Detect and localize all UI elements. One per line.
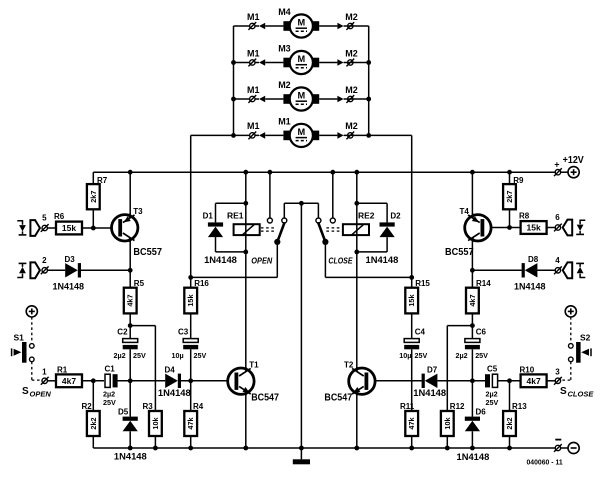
wire +12V rail	[93, 171, 555, 173]
wire D8 to pin 4	[537, 269, 555, 271]
wire R15 to C4	[411, 313, 413, 338]
wire C5 to R10	[498, 380, 521, 382]
wire R3 to ground rail	[154, 436, 156, 448]
wire motor row M1 right	[344, 134, 369, 136]
wire motor-left drop to switch common node	[191, 134, 234, 136]
wire S1 dashed top	[31, 317, 33, 344]
svg-text:D7: D7	[427, 365, 438, 374]
svg-text:2k2: 2k2	[505, 417, 514, 429]
svg-text:D4: D4	[165, 365, 176, 374]
resistor R15	[411, 277, 413, 287]
svg-text:CLOSE: CLOSE	[568, 390, 595, 399]
svg-text:R2: R2	[82, 402, 93, 411]
svg-text:2µ2: 2µ2	[456, 351, 468, 360]
diode D6	[471, 381, 473, 417]
wire T2 emitter to ground rail	[356, 394, 358, 448]
wire T4 collector node to D8	[472, 269, 521, 271]
svg-text:R11: R11	[400, 402, 415, 411]
svg-text:S: S	[560, 386, 567, 397]
svg-text:OPEN: OPEN	[30, 390, 52, 399]
wire D3 to T3 collector node	[81, 269, 130, 271]
svg-text:1N4148: 1N4148	[366, 255, 399, 266]
svg-text:R6: R6	[54, 212, 65, 221]
svg-text:T3: T3	[133, 207, 143, 216]
svg-text:BC547: BC547	[251, 392, 279, 403]
capacitor C2	[123, 339, 138, 343]
wire C1 to node	[117, 380, 165, 382]
svg-text:5: 5	[42, 214, 47, 223]
wire jog to R12	[447, 325, 472, 327]
wire D2 bottom link	[357, 251, 387, 253]
wire T3 base	[82, 227, 119, 229]
svg-text:M1: M1	[247, 85, 260, 95]
wire RE1 coil through box	[245, 224, 247, 252]
node T4 base / R9	[507, 225, 512, 230]
svg-text:RE2: RE2	[358, 210, 375, 220]
wire C3 to T1 base node	[190, 349, 192, 381]
wire R4 to ground rail	[190, 436, 192, 448]
wire M2-side bus	[368, 26, 370, 135]
svg-text:BC557: BC557	[133, 247, 162, 258]
resistor R16	[190, 277, 192, 287]
svg-text:040060 - 11: 040060 - 11	[527, 458, 563, 467]
svg-text:2µ2: 2µ2	[114, 351, 126, 360]
wire RE1 coil from rail	[245, 172, 247, 224]
wire motor row M4 right	[344, 25, 369, 27]
node T3 collector / D3 / R5	[128, 268, 133, 273]
wire R5 to C2 node	[129, 313, 131, 338]
wire D1 bottom link	[216, 251, 246, 253]
svg-text:25V: 25V	[415, 351, 428, 360]
svg-text:1N4148: 1N4148	[204, 255, 237, 266]
wire C4 to T2 base node	[411, 349, 413, 381]
wire center to ground rail	[300, 203, 302, 448]
wire R1 to node	[82, 380, 104, 382]
switch S2	[569, 344, 574, 349]
node R14 / C6 / R12 jog	[470, 323, 475, 328]
svg-text:R15: R15	[415, 279, 430, 288]
svg-text:M: M	[297, 91, 305, 101]
svg-text:25V: 25V	[133, 351, 146, 360]
svg-text:3: 3	[555, 368, 560, 377]
svg-text:T1: T1	[249, 360, 259, 369]
svg-text:R14: R14	[476, 279, 491, 288]
relay coil RE1	[234, 224, 260, 235]
pin 3	[555, 378, 560, 383]
capacitor C5	[485, 374, 490, 387]
svg-text:10µ: 10µ	[399, 351, 411, 360]
resistor R9	[503, 184, 516, 209]
diode D7	[425, 374, 438, 388]
svg-text:10k: 10k	[443, 416, 452, 429]
wire M1-side bus	[233, 26, 235, 135]
input contact symbol pin 2	[17, 274, 22, 278]
svg-text:+: +	[554, 160, 559, 170]
node RE2 coil bottom / D2	[354, 250, 359, 255]
wire RE2 coil bottom to T2 collector	[356, 252, 358, 370]
wire C2 to C1 node	[129, 349, 131, 381]
svg-text:BC547: BC547	[324, 392, 352, 403]
wire motor row M2 left	[234, 98, 260, 100]
wire R9 to T4 base node	[509, 209, 511, 227]
wire ground rail	[93, 447, 555, 449]
node D4 / C3 / R4	[188, 378, 193, 383]
svg-text:M: M	[297, 54, 305, 64]
svg-text:C3: C3	[178, 328, 189, 337]
transistor T2	[349, 368, 375, 394]
node T4 collector / D8 / R14	[470, 268, 475, 273]
svg-text:R10: R10	[520, 365, 535, 374]
wire RE1 common down	[276, 242, 278, 278]
connector shell pin 6	[563, 220, 573, 236]
wire motor row M4 mid-right	[319, 25, 337, 27]
wire T3 collector down	[129, 241, 131, 271]
resistor R14	[471, 270, 473, 287]
wire R8 to pin 6	[547, 227, 556, 229]
terminal + (S2 supply)	[565, 306, 576, 317]
wire RE2 coil through box	[356, 224, 358, 252]
svg-text:C2: C2	[117, 328, 128, 337]
diode D4	[165, 374, 178, 388]
svg-text:D6: D6	[476, 407, 487, 416]
node C5 / R13 / R10	[507, 378, 512, 383]
pin 5	[42, 225, 47, 230]
wire T2 base to node	[367, 380, 422, 382]
svg-text:1N4148: 1N4148	[457, 452, 490, 463]
wire RE2 coil from rail	[356, 172, 358, 224]
relay contact RE2 (switch)	[332, 172, 334, 218]
wire motor row M1 mid-right	[319, 134, 337, 136]
svg-text:2k7: 2k7	[505, 191, 514, 203]
wire R10 to pin 3	[547, 380, 556, 382]
pin 2	[42, 268, 47, 273]
wire D7 to C5	[437, 380, 486, 382]
wire D1 top link	[216, 202, 246, 204]
pin 6	[555, 225, 560, 230]
wire S1 dashed bottom to pin 1	[31, 362, 33, 380]
svg-text:25V: 25V	[486, 398, 499, 407]
svg-text:M1: M1	[247, 121, 260, 131]
svg-text:4k7: 4k7	[126, 294, 135, 306]
resistor R2	[87, 411, 100, 436]
svg-text:C6: C6	[476, 328, 487, 337]
svg-text:2k7: 2k7	[89, 191, 98, 203]
svg-text:D5: D5	[118, 407, 129, 416]
capacitor C6	[465, 339, 480, 343]
wire T1 emitter to ground rail	[245, 394, 247, 448]
wire motor row M2 mid-left	[265, 98, 283, 100]
svg-text:D3: D3	[65, 255, 76, 264]
switch S1	[30, 344, 35, 349]
svg-text:10k: 10k	[151, 416, 160, 429]
svg-text:D8: D8	[528, 255, 539, 264]
wire R13 to ground rail	[509, 436, 511, 448]
svg-text:R12: R12	[450, 402, 465, 411]
resistor R10	[521, 374, 547, 387]
wire rail to R9	[509, 172, 511, 184]
relay coil RE2	[343, 224, 369, 235]
svg-text:1N4148: 1N4148	[514, 281, 546, 291]
wire S2 dashed top	[570, 317, 572, 344]
node RE1 coil bottom / D1	[243, 250, 248, 255]
diode D2	[386, 203, 388, 222]
svg-text:6: 6	[555, 213, 560, 222]
svg-text:25V: 25V	[194, 351, 207, 360]
wire motor-right drop to switch common node	[369, 134, 412, 136]
wire motor row M3 mid-left	[265, 62, 283, 64]
relay contact RE1 (switch)	[269, 172, 271, 218]
wire motor row M3 right	[344, 62, 369, 64]
svg-text:1N4148: 1N4148	[413, 388, 446, 399]
wire R7 to T3 base node	[92, 209, 94, 228]
node T3 base / R7	[91, 226, 96, 231]
svg-text:4k7: 4k7	[527, 376, 541, 386]
svg-text:1N4148: 1N4148	[53, 281, 85, 291]
svg-text:M1: M1	[278, 117, 291, 127]
svg-text:M3: M3	[278, 44, 291, 54]
pin 4	[555, 268, 560, 273]
wire T4 emitter to rail	[471, 172, 473, 215]
node switch-open common / R16	[188, 275, 193, 280]
diode D8	[525, 263, 538, 277]
resistor R4	[190, 381, 192, 411]
svg-text:S2: S2	[580, 333, 591, 343]
node ground rail junctions	[128, 446, 133, 451]
wire D2 top link	[357, 202, 387, 204]
node switch center	[299, 201, 304, 206]
connector M2 (row M4)	[337, 23, 343, 30]
svg-text:15k: 15k	[527, 223, 541, 233]
node M1 bus row joints	[231, 60, 236, 65]
node D7 / C6 / D6	[470, 378, 475, 383]
svg-text:M2: M2	[345, 12, 358, 22]
wire jog to R3	[130, 325, 155, 327]
connector M1 (row M2)	[259, 96, 265, 103]
svg-text:M2: M2	[345, 48, 358, 58]
svg-text:CLOSE: CLOSE	[328, 257, 353, 266]
resistor R12	[441, 411, 454, 436]
svg-text:T2: T2	[344, 360, 354, 369]
diode D3	[65, 263, 78, 277]
wire motor row M3 mid-right	[319, 62, 337, 64]
diode D1	[215, 203, 217, 222]
wire motor row M3 left	[234, 62, 260, 64]
svg-text:RE1: RE1	[227, 210, 244, 220]
connector M1 (row M1)	[259, 132, 265, 139]
wire T3 emitter to rail	[129, 172, 131, 215]
svg-text:47k: 47k	[407, 416, 416, 429]
svg-text:M2: M2	[345, 121, 358, 131]
svg-text:10µ: 10µ	[172, 351, 184, 360]
wire motor row M1 left	[234, 134, 260, 136]
svg-text:2k2: 2k2	[89, 417, 98, 429]
node RE2 coil top / D2	[354, 201, 359, 206]
svg-text:R9: R9	[513, 176, 524, 185]
motor M1	[283, 131, 290, 141]
wire pin5 to R6	[47, 227, 56, 229]
node switch-close common / R15	[409, 275, 414, 280]
svg-text:R4: R4	[193, 402, 204, 411]
svg-text:1: 1	[42, 368, 47, 377]
wire D4 to T1 base	[181, 380, 237, 382]
resistor R6	[56, 222, 82, 235]
connector M1 (row M4)	[259, 23, 265, 30]
svg-text:R7: R7	[97, 176, 108, 185]
svg-text:R5: R5	[134, 279, 145, 288]
relay RE2 linkage	[326, 227, 341, 229]
svg-text:+12V: +12V	[563, 154, 584, 166]
svg-text:15k: 15k	[407, 294, 416, 307]
svg-text:C4: C4	[415, 328, 426, 337]
svg-text:47k: 47k	[186, 416, 195, 429]
svg-text:25V: 25V	[103, 398, 116, 407]
svg-text:1N4148: 1N4148	[158, 388, 191, 399]
svg-text:S: S	[22, 386, 29, 397]
connector shell pin 4	[563, 262, 573, 278]
wire R2 to ground rail	[92, 436, 94, 448]
wire RE2 common down	[324, 242, 326, 278]
resistor R8	[521, 221, 547, 234]
wire T4 collector down	[471, 241, 473, 271]
resistor R7	[87, 184, 100, 209]
svg-text:R3: R3	[143, 402, 154, 411]
motor M4	[283, 21, 290, 31]
input contact symbol pin 6	[580, 220, 585, 224]
svg-text:1N4148: 1N4148	[114, 451, 147, 462]
svg-text:M: M	[297, 127, 305, 137]
capacitor C4	[404, 339, 419, 343]
relay RE1 linkage	[261, 227, 276, 229]
svg-text:R1: R1	[57, 365, 68, 374]
wire motor row M4 mid-left	[265, 25, 283, 27]
input contact symbol pin 5	[17, 221, 22, 225]
motor M2	[283, 94, 290, 104]
connector shell pin 2	[30, 262, 40, 278]
wire RE1 coil bottom to T1 collector	[245, 252, 247, 370]
input contact symbol pin 4	[580, 274, 585, 278]
wire pin1 to R1	[47, 380, 56, 382]
terminal - (battery minus)	[555, 445, 560, 450]
svg-text:C1: C1	[105, 365, 116, 374]
node R5 / C2 / R3 jog	[128, 323, 133, 328]
terminal +12V	[555, 170, 560, 175]
wire R14 to C6 node	[471, 313, 473, 338]
motor M3	[283, 58, 290, 68]
capacitor C1	[105, 374, 110, 387]
wire T4 base	[484, 227, 521, 229]
svg-text:M1: M1	[247, 48, 260, 58]
wire R16 to C3	[190, 313, 192, 338]
node rail junctions	[128, 170, 133, 175]
node R1 / R2 / C1	[91, 378, 96, 383]
connector M2 (row M2)	[337, 96, 343, 103]
svg-text:25V: 25V	[475, 351, 488, 360]
svg-text:15k: 15k	[62, 223, 76, 233]
wire rail to R7	[92, 172, 94, 184]
wire C6 to C5 node	[471, 349, 473, 381]
connector M2 (row M1)	[337, 132, 343, 139]
transistor T4	[465, 215, 491, 241]
transistor T3	[112, 215, 138, 241]
wire motor row M2 mid-right	[319, 98, 337, 100]
svg-text:M2: M2	[345, 85, 358, 95]
node M2 bus row joints	[366, 60, 371, 65]
resistor R13	[509, 381, 511, 411]
svg-text:R16: R16	[194, 279, 209, 288]
svg-text:2: 2	[42, 256, 47, 265]
wire motor row M2 right	[344, 98, 369, 100]
svg-text:M4: M4	[278, 7, 291, 17]
svg-text:D2: D2	[390, 211, 401, 220]
svg-text:M: M	[297, 18, 305, 28]
svg-text:R8: R8	[519, 212, 530, 221]
node C1 / C2 / D5	[128, 378, 133, 383]
svg-text:BC557: BC557	[445, 247, 474, 258]
svg-text:T4: T4	[460, 207, 470, 216]
wire pin2 to D3	[47, 269, 65, 271]
wire node to R2	[92, 381, 94, 411]
node RE1 coil top / D1	[243, 201, 248, 206]
svg-text:4k7: 4k7	[62, 376, 76, 386]
wire R11 to ground rail	[411, 436, 413, 448]
svg-text:S1: S1	[14, 333, 25, 343]
svg-text:D1: D1	[203, 211, 214, 220]
connector shell pin 5	[30, 220, 40, 236]
resistor R5	[129, 270, 131, 287]
wire motor row M1 mid-left	[265, 134, 283, 136]
resistor R1	[56, 374, 82, 387]
resistor R3	[149, 411, 162, 436]
ground	[300, 448, 302, 459]
wire S2 dashed bottom to pin 3	[570, 362, 572, 380]
svg-text:R13: R13	[512, 402, 527, 411]
resistor R11	[411, 381, 413, 411]
transistor T1	[228, 368, 254, 394]
svg-text:OPEN: OPEN	[251, 257, 273, 266]
svg-text:M2: M2	[278, 80, 291, 90]
svg-text:4: 4	[555, 256, 560, 265]
svg-text:15k: 15k	[186, 294, 195, 307]
svg-text:4k7: 4k7	[468, 294, 477, 306]
wire R12 to ground rail	[446, 436, 448, 448]
terminal + (S1 supply)	[26, 306, 37, 317]
svg-text:C5: C5	[487, 365, 498, 374]
svg-text:M1: M1	[247, 12, 260, 22]
wire motor row M4 left	[234, 25, 260, 27]
connector M1 (row M3)	[259, 59, 265, 66]
connector M2 (row M3)	[337, 59, 343, 66]
diode D5	[129, 381, 131, 417]
capacitor C3	[183, 339, 198, 343]
pin 1	[42, 378, 47, 383]
